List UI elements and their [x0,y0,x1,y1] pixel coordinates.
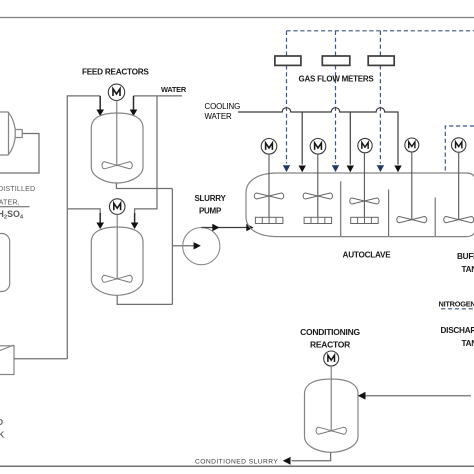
agitator shaft A2 [317,154,319,217]
svg-text:COOLING: COOLING [205,102,241,111]
wire drum outlet pipe [0,134,39,174]
wire pump box to feed header [14,358,67,360]
cooling drop 1 [301,112,303,165]
wire R1 outlet [116,183,172,189]
wire pump discharge to autoclave [201,227,248,229]
arrow gas 1 [283,165,290,172]
svg-text:AUTOCLAVE: AUTOCLAVE [343,251,392,260]
wire feed into conditioning reactor from right [365,395,471,397]
propeller A5 [444,217,474,223]
baffle 3 [434,198,436,237]
svg-text:BUFFER: BUFFER [457,252,474,261]
wire reactor R1 right inlet drop [133,96,135,111]
svg-text:PUMP: PUMP [199,207,222,216]
autoclave shell [246,173,474,237]
propeller A3 [350,198,379,204]
arrow conditioned slurry [283,457,291,465]
cooling drop 2 [349,112,351,165]
arrow into R2 left [96,223,104,230]
sparger A3 [351,217,379,223]
top border rule [0,17,474,19]
svg-text:SLURRY: SLURRY [194,194,226,203]
wire water supply line [134,95,183,97]
arrow mid discharge [212,224,219,231]
slurry pump circle [183,228,220,265]
agitator shaft A3 [363,153,365,218]
svg-text:TANK: TANK [462,265,474,274]
flow meter FM3 [368,56,394,65]
agitator shaft R1 [116,101,118,166]
svg-text:WATER: WATER [205,112,233,121]
baffle 2 [388,190,390,237]
label DISTILLED WATER H2SO4 [0,184,35,221]
dosing pump box (cut at left edge) [0,345,14,375]
agitator shaft A5 [458,152,460,219]
svg-text:WATER: WATER [161,85,187,94]
arrow into pump [194,242,201,249]
svg-text:O: O [0,417,4,427]
svg-text:WATER,: WATER, [0,198,20,207]
motor M reactor R1 [108,84,124,100]
svg-text:CONDITIONING: CONDITIONING [300,327,360,337]
cooling water header with hops [238,108,398,165]
svg-text:FEED REACTORS: FEED REACTORS [82,68,149,77]
wire suction tap into pump [172,245,194,247]
acid feed drum (cut at left edge) [0,112,22,155]
arrow gas 2 [332,165,339,172]
arrow into R1 right [130,110,138,117]
sparger A1 [255,217,283,223]
sparger A2 [304,217,332,223]
gas line 1 dashed [286,31,288,164]
feed reactor R2 vessel [91,227,143,295]
gas manifold dashed header [287,30,474,32]
svg-text:CONDITIONED SLURRY: CONDITIONED SLURRY [195,458,278,465]
gas line 4 dashed from right edge [445,126,474,172]
nitrogen dashed line [441,308,474,310]
gas line 3 dashed [379,31,381,164]
motor M autoclave A2 [310,139,326,155]
wire feed header branch to reactor R2 left [67,209,100,214]
propeller A2 [303,193,332,199]
svg-text:DISTILLED: DISTILLED [0,184,35,193]
wire feed header (left vertical) [67,96,100,359]
propeller R1 [102,162,132,169]
agitator shaft A4 [411,152,413,220]
gas line 2 dashed [335,31,337,164]
svg-text:NITROGEN: NITROGEN [439,299,474,308]
propeller A1 [254,193,283,199]
wire water line down to reactor R2 [135,96,157,214]
propeller R2 [102,275,132,282]
arrow gas 3 [377,165,384,172]
storage vessel (cut at left edge) [0,234,10,292]
wire pump suction vertical [171,189,173,305]
arrow into R1 left [96,110,104,117]
propeller A4 [397,217,427,223]
arrow into autoclave [246,224,253,231]
feed reactor R1 vessel [91,113,143,183]
baffle 1 [340,181,342,236]
arrow cooling 3 [394,166,401,173]
arrow into conditioning reactor [358,392,366,400]
bottom border rule [0,465,474,467]
arrow into R2 right [131,223,139,230]
svg-text:GAS FLOW METERS: GAS FLOW METERS [299,75,375,84]
agitator shaft A1 [268,154,270,217]
svg-text:TANK: TANK [462,339,474,348]
motor M autoclave A3 [358,138,372,152]
propeller conditioning reactor [316,427,346,434]
motor M reactor R2 [109,199,125,215]
wire conditioned slurry outlet [292,452,331,461]
arrow cooling 1 [299,166,306,173]
arrow cooling 2 [347,166,354,173]
conditioning reactor vessel [305,379,359,452]
svg-text:DISCHARGE: DISCHARGE [441,326,474,335]
flow meter FM1 [275,56,301,65]
motor M autoclave A5 [452,138,466,152]
flow meter FM2 [322,56,350,65]
agitator shaft R2 [116,214,118,279]
wire reactor R1 left inlet drop [99,96,101,111]
wire R2 outlet [117,295,172,304]
svg-text:REACTOR: REACTOR [310,340,350,350]
motor M conditioning reactor [324,351,339,366]
motor M autoclave A4 [405,138,419,152]
agitator shaft conditioning reactor [330,366,332,431]
motor M autoclave A1 [261,139,277,155]
